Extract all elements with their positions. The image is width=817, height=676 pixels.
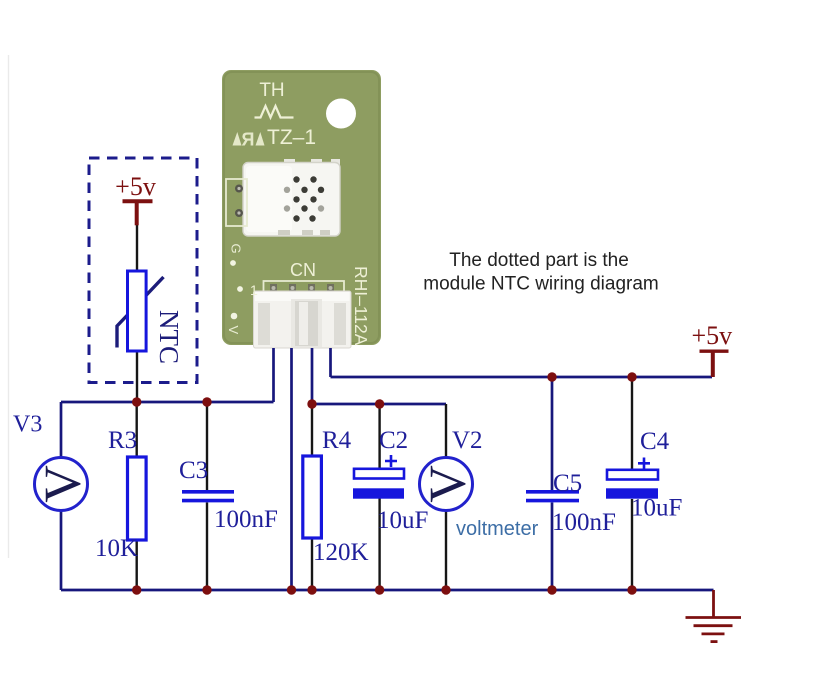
svg-text:V: V [420, 465, 477, 503]
svg-text:module NTC wiring diagram: module NTC wiring diagram [423, 274, 658, 295]
svg-text:V3: V3 [13, 412, 42, 438]
svg-text:1: 1 [250, 282, 258, 298]
svg-text:+5v: +5v [691, 321, 732, 350]
svg-text:V2: V2 [452, 427, 483, 454]
svg-text:R4: R4 [322, 427, 352, 454]
svg-text:C4: C4 [640, 428, 670, 455]
svg-text:voltmeter: voltmeter [456, 518, 539, 540]
svg-text:+5v: +5v [115, 172, 156, 201]
svg-text:10uF: 10uF [377, 507, 428, 534]
svg-text:100nF: 100nF [214, 506, 278, 533]
svg-text:V: V [226, 326, 241, 335]
svg-text:C5: C5 [553, 470, 582, 497]
svg-text:V: V [35, 465, 92, 503]
svg-text:RHI–112A: RHI–112A [351, 266, 371, 346]
svg-text:The dotted part is the: The dotted part is the [449, 250, 629, 271]
svg-text:120K: 120K [313, 539, 369, 566]
svg-text:100nF: 100nF [552, 509, 616, 536]
svg-text:TZ–1: TZ–1 [267, 126, 316, 149]
svg-text:G: G [229, 244, 244, 254]
svg-text:C2: C2 [379, 427, 408, 454]
svg-text:CN: CN [290, 260, 316, 280]
svg-text:R3: R3 [108, 427, 137, 454]
svg-text:C3: C3 [179, 457, 208, 484]
svg-text:TH: TH [259, 80, 284, 101]
svg-text:NTC: NTC [154, 310, 184, 364]
svg-text:10uF: 10uF [631, 495, 682, 522]
svg-text:Я: Я [242, 130, 255, 150]
svg-text:10K: 10K [95, 535, 138, 562]
